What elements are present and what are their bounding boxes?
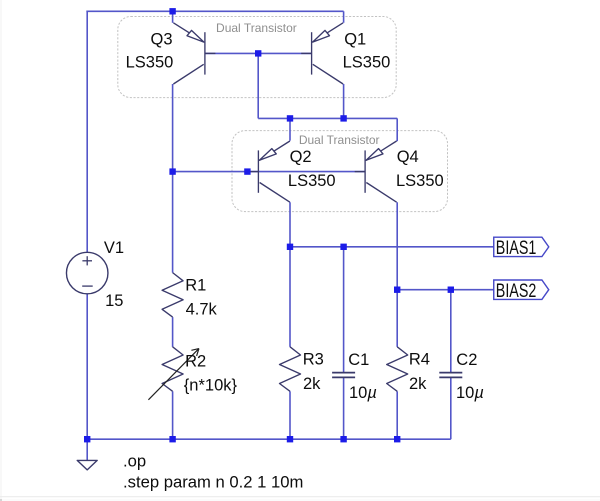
svg-text:.step param n 0.2 1 10m: .step param n 0.2 1 10m <box>123 473 303 492</box>
svg-text:4.7k: 4.7k <box>186 301 218 319</box>
svg-text:LS350: LS350 <box>126 54 174 72</box>
svg-text:R2: R2 <box>185 353 206 371</box>
svg-text:10µ: 10µ <box>456 384 484 402</box>
svg-text:2k: 2k <box>409 375 427 393</box>
svg-text:10µ: 10µ <box>349 384 377 402</box>
svg-text:R4: R4 <box>409 351 430 369</box>
svg-text:V1: V1 <box>104 239 124 257</box>
svg-text:BIAS1: BIAS1 <box>496 237 537 259</box>
svg-text:Dual Transistor: Dual Transistor <box>216 21 297 35</box>
svg-text:LS350: LS350 <box>343 54 391 72</box>
svg-text:15: 15 <box>105 292 123 310</box>
svg-text:C2: C2 <box>456 351 477 369</box>
svg-text:2k: 2k <box>303 375 321 393</box>
svg-text:Q2: Q2 <box>290 148 312 166</box>
svg-text:{n*10k}: {n*10k} <box>184 377 238 395</box>
svg-text:LS350: LS350 <box>396 172 444 190</box>
svg-text:Dual Transistor: Dual Transistor <box>299 133 380 147</box>
svg-text:R3: R3 <box>303 351 324 369</box>
svg-text:Q4: Q4 <box>397 148 419 166</box>
svg-text:BIAS2: BIAS2 <box>496 280 537 302</box>
svg-text:LS350: LS350 <box>288 172 336 190</box>
svg-text:R1: R1 <box>185 277 206 295</box>
svg-text:Q1: Q1 <box>344 31 366 49</box>
svg-text:C1: C1 <box>348 351 369 369</box>
svg-text:Q3: Q3 <box>151 31 173 49</box>
svg-text:.op: .op <box>123 451 146 470</box>
